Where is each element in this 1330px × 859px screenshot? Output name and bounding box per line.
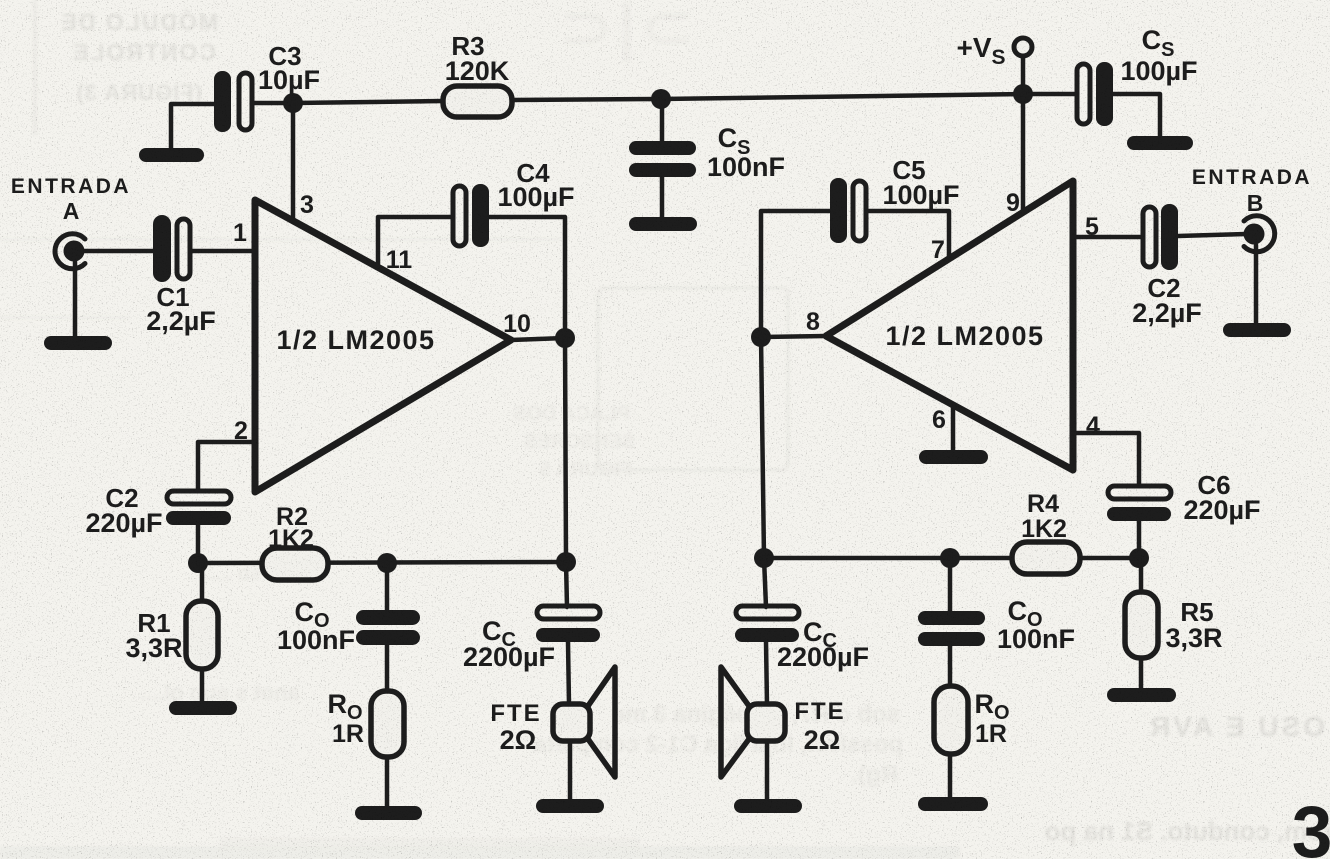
- wire connector A to C1: [82, 249, 155, 254]
- wire pin 3 vertical: [291, 103, 296, 222]
- wire Cc to speaker: [568, 642, 569, 705]
- ground below C3 left lead: [139, 148, 204, 162]
- wire +Vs stem: [1021, 56, 1026, 94]
- wire C2 to connector B: [1178, 234, 1246, 236]
- wire bus to Cs right: [1023, 92, 1077, 97]
- node at Cs junction: [651, 89, 671, 109]
- resistor R1: [186, 601, 218, 669]
- wire pin 6 to ground: [951, 405, 956, 451]
- node Co junction: [377, 553, 397, 573]
- wire Cc stem: [566, 562, 567, 607]
- ground below Ro B: [918, 797, 988, 811]
- wire C6 to rail: [1137, 521, 1142, 558]
- ground below Ro: [355, 806, 422, 820]
- resistor Ro: [371, 691, 404, 757]
- wire R1 stem: [200, 563, 205, 602]
- capacitor C3: [214, 71, 252, 132]
- speaker FTE A: [553, 667, 615, 777]
- wire Co stem: [385, 563, 390, 611]
- ground below R1: [169, 701, 237, 715]
- node Cc junction: [556, 552, 576, 572]
- capacitor Cs 100nF: [629, 141, 696, 177]
- wire top bus from C3 to R3: [252, 101, 443, 103]
- node at +Vs junction: [1013, 84, 1033, 104]
- wire R5 stem: [1139, 558, 1144, 593]
- capacitor Cc 2200uF B: [735, 606, 799, 642]
- node R4/C6/R5: [1129, 548, 1149, 568]
- wire R1 to ground: [200, 669, 205, 702]
- node at output: [555, 328, 575, 348]
- op-amp U1a triangle: [255, 200, 511, 492]
- +Vs terminal: [1014, 38, 1032, 56]
- op-amp U1b triangle: [826, 181, 1073, 470]
- wire pin 7 feedback: [866, 211, 949, 258]
- capacitor Cs 100uF: [1077, 62, 1113, 126]
- wire pin 8: [761, 336, 826, 337]
- wire Cs right lead to ground: [1113, 94, 1160, 138]
- wire pin 4 to C6: [1073, 433, 1139, 486]
- capacitor C4: [453, 184, 489, 247]
- wire Co to Ro: [385, 645, 390, 692]
- resistor R5: [1125, 592, 1158, 658]
- node Co B junction: [940, 548, 960, 568]
- wire C5 left lead down: [761, 211, 830, 337]
- resistor R3: [443, 86, 512, 117]
- speaker FTE B: [721, 667, 785, 777]
- wire Co B stem: [948, 558, 953, 612]
- wire Cc B stem: [764, 558, 766, 607]
- connector ENTRADA B: [1244, 216, 1275, 252]
- wire connector B to ground: [1254, 245, 1259, 325]
- node C2/R1/R2: [188, 553, 208, 573]
- wire pin 2 to C2: [198, 442, 255, 491]
- wire output vertical: [565, 338, 566, 562]
- wire pin 11 feedback: [378, 217, 453, 266]
- wire pin 9 vertical: [1021, 94, 1026, 212]
- node at C3 / pin 3 junction: [283, 93, 303, 113]
- wire Co B to Ro B: [948, 646, 953, 687]
- capacitor C5: [830, 178, 866, 243]
- wire C2 to rail node: [196, 525, 201, 563]
- wire speaker B to ground: [765, 741, 770, 800]
- node pin 8: [751, 327, 771, 347]
- ground below pin 6: [919, 450, 988, 464]
- ground below connector B: [1223, 323, 1291, 337]
- wire Ro to ground: [385, 757, 390, 807]
- wire left rail: [198, 562, 566, 563]
- ground below Cs right: [1127, 136, 1193, 150]
- capacitor C2 220uF: [166, 491, 231, 525]
- wire Cs stem down: [660, 177, 665, 219]
- wire pin 5: [1073, 235, 1143, 240]
- ground below connector A: [44, 336, 112, 350]
- capacitor C2 input B: [1143, 204, 1178, 270]
- capacitor Co 100nF: [356, 610, 420, 645]
- capacitor C6 220uF: [1107, 486, 1171, 521]
- wire left column vertical: [761, 337, 764, 558]
- capacitor C1: [153, 215, 190, 282]
- wire top bus from R3 to +Vs node: [512, 94, 1023, 100]
- ground below speaker B: [734, 799, 802, 813]
- ground below speaker A: [536, 799, 604, 813]
- resistor R4: [1012, 542, 1080, 574]
- wire pin 1: [190, 249, 255, 254]
- wire connector A to ground: [73, 262, 78, 338]
- wire speaker A to ground: [568, 741, 573, 800]
- connector ENTRADA A: [55, 234, 85, 269]
- wire output pin 10: [511, 338, 565, 340]
- wire C4 right lead down to output: [489, 217, 565, 338]
- resistor Ro B: [934, 686, 968, 754]
- ground below R5: [1107, 688, 1176, 702]
- wire C3 left lead and drop to ground: [171, 104, 216, 150]
- node Cc B junction: [754, 548, 774, 568]
- wire Ro B to ground: [948, 754, 953, 798]
- wire R5 to ground: [1139, 658, 1144, 689]
- capacitor Co 100nF B: [918, 611, 985, 646]
- resistor R2: [262, 548, 328, 580]
- wire Cc B to speaker: [766, 642, 767, 705]
- wire Cs stem up: [660, 99, 665, 142]
- ground below Cs: [629, 217, 697, 231]
- wire right rail: [764, 556, 1139, 561]
- capacitor Cc 2200uF: [536, 606, 600, 642]
